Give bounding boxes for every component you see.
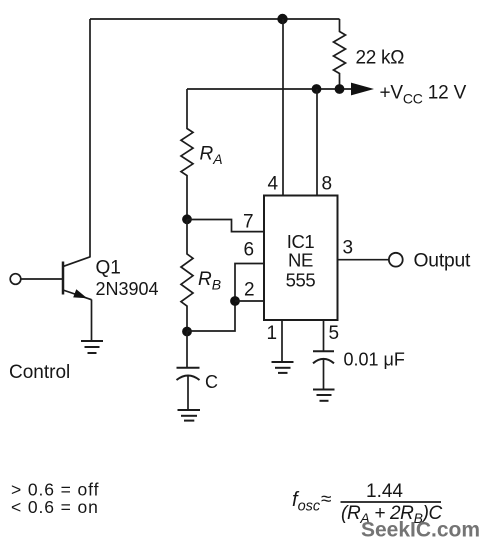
node VCC rail to 22k (335, 84, 345, 94)
resistor RA (181, 89, 193, 219)
svg-text:4: 4 (268, 173, 279, 194)
svg-text:6: 6 (244, 240, 255, 261)
svg-text:< 0.6 = on: < 0.6 = on (11, 497, 99, 517)
wire base lead (21, 278, 62, 280)
formula f osc (292, 481, 443, 526)
node VCC rail to pin 8 (312, 84, 322, 94)
svg-text:1.44: 1.44 (366, 481, 403, 502)
svg-text:3: 3 (343, 238, 354, 259)
svg-text:C: C (205, 372, 218, 392)
wire pin 2 stub (235, 300, 264, 302)
svg-text:8: 8 (322, 173, 333, 194)
wire top rail (90, 18, 340, 20)
wire pin 3 output (338, 259, 389, 261)
node pin 2 tap (230, 296, 240, 306)
wire junction to pin 7 (187, 220, 264, 232)
op-amp IC1 NE555 box (264, 196, 338, 321)
ground below C (178, 410, 201, 421)
svg-text:≈: ≈ (321, 489, 331, 510)
terminal output circle (389, 253, 403, 267)
svg-text:SeekIC.com: SeekIC.com (361, 519, 480, 542)
wire VCC rail (187, 88, 352, 90)
svg-text:0.01 μF: 0.01 μF (344, 350, 405, 370)
svg-text:22 kΩ: 22 kΩ (356, 48, 405, 69)
wire emitter to ground (91, 300, 93, 342)
svg-text:555: 555 (286, 270, 316, 291)
wire pin 4 riser (282, 19, 284, 196)
svg-text:1: 1 (267, 323, 278, 344)
svg-text:NE: NE (288, 250, 313, 271)
svg-text:2: 2 (244, 280, 255, 301)
label IC1 NE 555 (286, 231, 316, 291)
svg-text:Output: Output (414, 251, 472, 272)
capacitor C (177, 332, 200, 411)
node top rail to pin 4 (277, 14, 287, 24)
node RB C junction (182, 327, 192, 337)
wire junction to pins 6 and 2 (187, 264, 264, 332)
resistor R 22k (334, 19, 346, 89)
svg-text:5: 5 (329, 323, 340, 344)
resistor RB (181, 219, 193, 331)
svg-text:fosc: fosc (292, 489, 321, 515)
svg-text:+VCC 12 V: +VCC 12 V (380, 82, 467, 106)
wire pin 1 to ground (281, 320, 283, 362)
wire collector riser (89, 19, 91, 257)
terminal control input circle (10, 274, 21, 285)
svg-text:7: 7 (243, 212, 254, 233)
node RA RB junction (182, 214, 192, 224)
svg-text:RA: RA (200, 144, 223, 168)
transistor Q1 (63, 257, 92, 300)
wire pin 8 riser (316, 89, 318, 196)
ground Q1 emitter (81, 341, 103, 353)
svg-text:Control: Control (9, 362, 70, 383)
svg-text:Q1: Q1 (96, 258, 121, 279)
svg-text:2N3904: 2N3904 (96, 279, 159, 299)
ground below 0.01 uF (313, 390, 335, 401)
capacitor 0.01 uF (313, 351, 334, 389)
arrow +VCC supply (351, 83, 374, 96)
ground pin 1 (272, 362, 294, 373)
svg-text:RB: RB (198, 269, 221, 293)
wire pin 5 (323, 320, 325, 351)
